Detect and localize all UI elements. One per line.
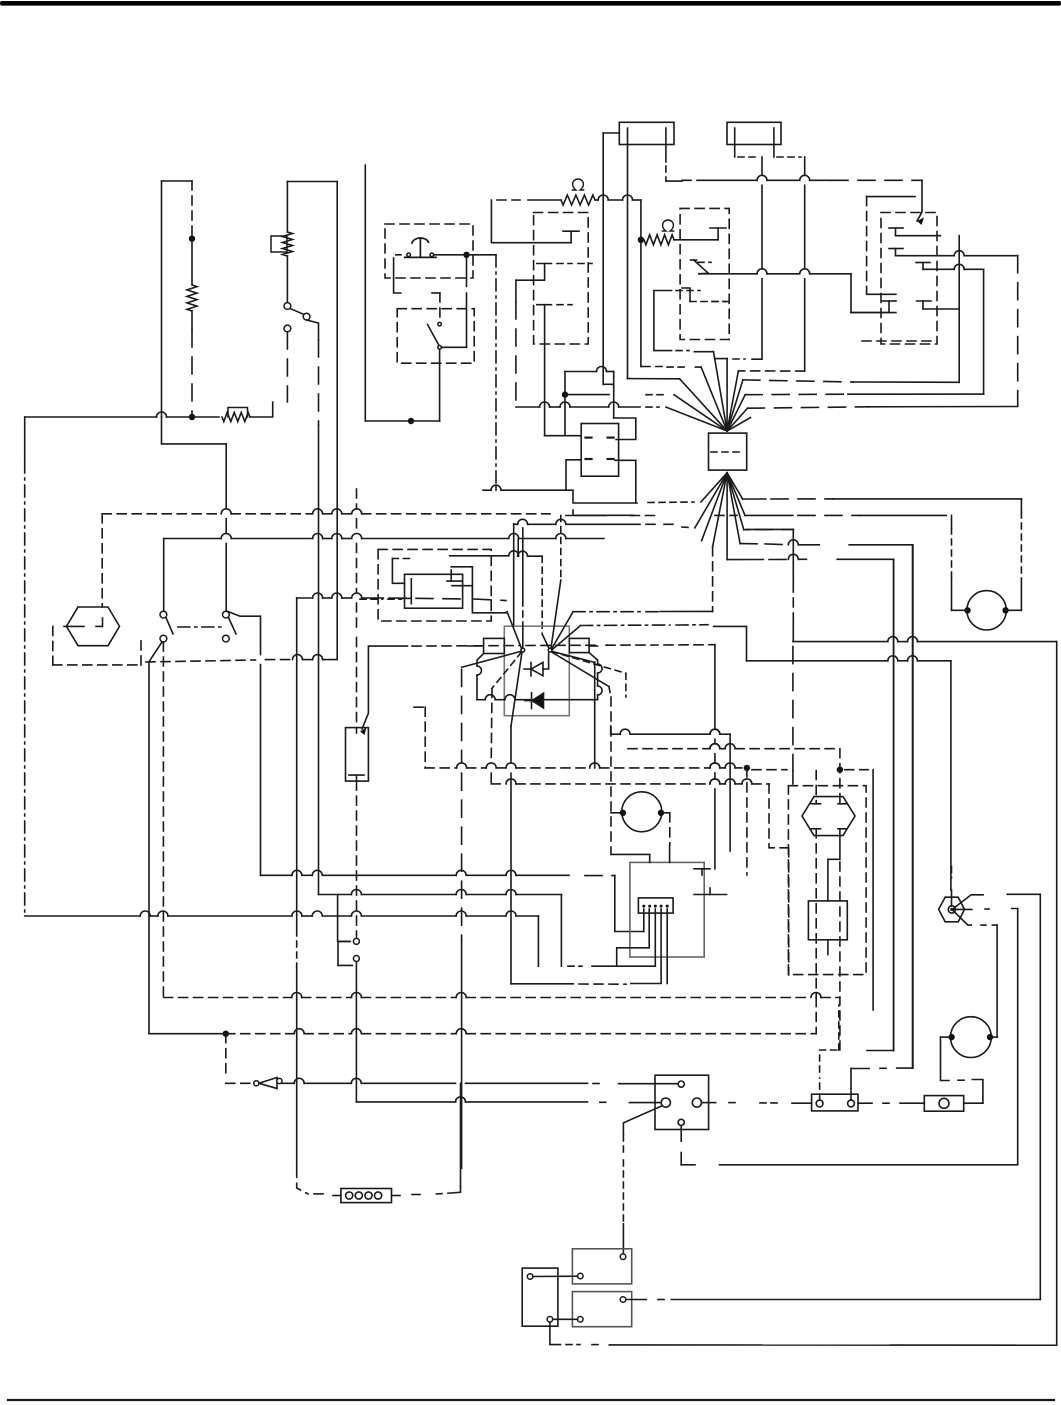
wire (178, 626, 225, 628)
wire (609, 1344, 1056, 1346)
ignition fan A (462, 528, 525, 726)
wire (566, 460, 581, 490)
flasher (622, 792, 662, 832)
contact (916, 263, 930, 270)
wire (952, 609, 968, 611)
wire (466, 1082, 600, 1084)
wire (615, 460, 636, 503)
bus (266, 655, 338, 660)
wire (838, 1005, 840, 1050)
wire (355, 962, 357, 1102)
resistor R4 (561, 195, 595, 205)
wire (845, 769, 868, 771)
wire (282, 1078, 456, 1083)
wire (627, 128, 629, 379)
wire (297, 1168, 329, 1194)
wire (603, 132, 619, 134)
ignition housing (504, 626, 569, 716)
switch S7 (254, 1078, 282, 1089)
border top rule (0, 1, 1061, 6)
wire (788, 848, 790, 975)
wire (611, 854, 649, 862)
label (572, 179, 583, 190)
bus (514, 519, 676, 524)
bolt (939, 897, 965, 922)
wire (191, 181, 193, 239)
wire (568, 965, 655, 967)
pin (661, 1098, 670, 1107)
wire (682, 526, 689, 529)
wire (641, 366, 701, 369)
wire (729, 734, 731, 851)
wire (872, 770, 874, 1010)
contact (691, 260, 711, 273)
relay K7 (522, 1268, 558, 1326)
bus (483, 485, 637, 503)
wire (849, 544, 912, 546)
wire (364, 165, 366, 421)
wire (191, 239, 193, 284)
wire (972, 1080, 983, 1104)
pin (678, 1119, 684, 1125)
wire (617, 909, 650, 966)
bus (25, 911, 539, 916)
wire (356, 638, 358, 733)
wire (537, 916, 539, 966)
contact (682, 288, 726, 302)
contact (586, 438, 616, 459)
fuse F1 (619, 122, 674, 144)
wire (953, 910, 971, 925)
contact (694, 869, 710, 875)
wire (912, 545, 914, 1068)
wire (746, 528, 793, 530)
wire (839, 749, 841, 804)
wire (466, 257, 468, 347)
module connector (638, 898, 673, 913)
wire (712, 547, 714, 612)
wire (839, 862, 841, 998)
node (463, 252, 469, 258)
wire (851, 274, 896, 313)
wire (468, 645, 484, 647)
wire (603, 133, 614, 384)
wire (746, 768, 748, 875)
wire (669, 813, 671, 845)
relay K4 (346, 728, 369, 782)
wire (565, 394, 668, 396)
wire (676, 350, 689, 352)
wire (851, 1067, 913, 1069)
node (837, 767, 843, 773)
switch S3 housing (397, 309, 474, 364)
wire (774, 128, 801, 157)
contact (710, 228, 726, 240)
wire (867, 196, 915, 198)
wire (511, 983, 626, 985)
wire (710, 645, 720, 869)
fuse F3 (812, 1094, 858, 1111)
wire (996, 925, 998, 1037)
wire (296, 967, 298, 1168)
switch S5 (223, 611, 237, 642)
node (744, 765, 750, 771)
connector X3 (655, 1075, 709, 1129)
wire (839, 998, 841, 1051)
node (948, 1034, 954, 1040)
wire (250, 402, 273, 417)
contact (811, 803, 820, 805)
wire (912, 545, 914, 1068)
wire (191, 311, 193, 417)
bus (164, 993, 839, 998)
wire (951, 867, 953, 906)
wire (533, 1275, 578, 1277)
bus (743, 380, 959, 382)
wire (643, 909, 645, 932)
wire (287, 182, 337, 233)
resistor R1 (187, 285, 197, 311)
wire (866, 197, 868, 294)
wire (815, 829, 817, 1034)
switch S2 (396, 238, 436, 257)
wire (541, 556, 543, 634)
wire fan top (666, 352, 751, 431)
wire (815, 771, 817, 804)
contact (694, 888, 727, 895)
bus (628, 744, 835, 749)
node (638, 237, 644, 243)
wire (690, 301, 729, 303)
wire (286, 332, 288, 402)
wire (594, 662, 596, 768)
contact (64, 618, 104, 626)
switch S1 (284, 303, 310, 332)
wire (828, 829, 840, 901)
wire (162, 642, 164, 998)
wire (619, 1083, 679, 1085)
node (987, 1034, 993, 1040)
wire (163, 539, 165, 612)
wire (515, 280, 517, 407)
contact (447, 570, 463, 581)
wire (461, 669, 463, 1168)
wire (513, 524, 515, 626)
wire (850, 1069, 852, 1101)
wire (917, 180, 924, 225)
contact (811, 828, 820, 830)
wire (226, 1082, 251, 1084)
wire (893, 559, 895, 1050)
wire (626, 1299, 1040, 1301)
bus (727, 554, 806, 559)
wire (581, 624, 708, 627)
wire (1006, 609, 1022, 611)
wire (460, 1083, 462, 1186)
wire (392, 558, 414, 560)
wire (720, 1164, 1018, 1166)
bus (365, 420, 439, 422)
contact (349, 775, 364, 781)
switch S6 (353, 938, 359, 961)
solenoid housing (788, 786, 866, 975)
wire (804, 157, 806, 371)
ignition outline (477, 653, 602, 700)
wire (318, 340, 320, 425)
pin (678, 1081, 684, 1087)
wire (669, 845, 671, 862)
wire (923, 308, 959, 310)
wire (560, 516, 562, 581)
wire (610, 726, 612, 734)
wire (958, 1079, 966, 1081)
wire fan bottom (695, 473, 745, 560)
bus (747, 656, 951, 661)
wire (162, 417, 227, 444)
wire (714, 626, 747, 660)
contact (889, 228, 903, 236)
wire (225, 444, 227, 611)
wire (792, 647, 794, 771)
contact (883, 301, 897, 313)
wire (862, 340, 935, 342)
wire (941, 1036, 952, 1038)
bus (744, 528, 794, 530)
wire (544, 305, 546, 436)
wire (611, 812, 670, 814)
wire (681, 1127, 695, 1165)
node (658, 810, 664, 816)
wire (614, 372, 636, 440)
wire (622, 1135, 624, 1253)
wire (1007, 894, 1040, 1299)
wire (792, 529, 794, 641)
wire (1020, 499, 1022, 610)
wire (792, 771, 794, 784)
wire (161, 181, 163, 417)
border bottom rule (8, 1399, 1054, 1401)
wire (1056, 642, 1058, 1346)
ignition fan B (543, 580, 626, 687)
wire (981, 924, 997, 926)
wire (296, 598, 298, 936)
wire (858, 1102, 912, 1104)
contact (563, 231, 579, 243)
wire (356, 781, 358, 937)
wire (550, 1322, 603, 1345)
wire (654, 909, 656, 966)
resistor R2 (222, 408, 250, 422)
gauge (967, 591, 1006, 630)
contact (838, 803, 846, 805)
bus (226, 1029, 815, 1034)
wire (867, 1050, 894, 1052)
contact (889, 249, 903, 256)
wire (360, 598, 401, 600)
diode D1 (524, 653, 549, 676)
node (189, 414, 195, 420)
bus (25, 412, 219, 417)
wire (510, 726, 512, 984)
wire (953, 895, 983, 909)
wire (439, 293, 441, 320)
wire (360, 646, 407, 735)
pin (578, 1317, 584, 1323)
wire (149, 642, 162, 1034)
wire (140, 639, 142, 665)
switch S4 (160, 611, 173, 642)
wire (666, 128, 682, 181)
wire (615, 876, 644, 932)
node (1002, 607, 1008, 613)
diode D2 (525, 693, 544, 709)
bus (682, 175, 922, 180)
fuse F2 (727, 122, 781, 144)
bus (740, 540, 819, 545)
wire (338, 895, 350, 942)
node (408, 418, 414, 424)
wire (495, 255, 497, 490)
wire (490, 688, 493, 784)
wire (517, 539, 519, 557)
bus (425, 763, 742, 768)
resistor R5 (644, 235, 674, 245)
wire (623, 1106, 661, 1135)
wire (950, 661, 952, 890)
node (223, 1031, 229, 1037)
wire (896, 251, 1018, 256)
switch S2 housing (385, 224, 473, 278)
wire (318, 425, 320, 895)
bus (450, 551, 519, 556)
wire (595, 195, 641, 200)
bus (745, 514, 946, 516)
wire (951, 515, 953, 610)
contact (401, 579, 411, 604)
resistor R3 (271, 232, 292, 256)
wire (964, 1102, 983, 1104)
wire (827, 940, 829, 955)
wire (609, 687, 611, 855)
fuse F4 (924, 1096, 963, 1112)
wire (412, 645, 715, 646)
wire (820, 1050, 840, 1100)
bus (743, 498, 1022, 500)
node (562, 391, 568, 397)
wire (851, 312, 889, 314)
wire (867, 293, 896, 295)
bus (745, 393, 983, 396)
wire (893, 559, 895, 1050)
wire (518, 551, 543, 556)
wire (837, 558, 893, 560)
wire (676, 290, 700, 292)
wire (735, 128, 758, 157)
bus (611, 729, 730, 734)
wire (738, 370, 804, 372)
pin (578, 1273, 584, 1279)
pin (620, 1254, 626, 1260)
wire (225, 1034, 227, 1078)
wire (24, 417, 26, 916)
pin (692, 1098, 701, 1107)
starter (951, 1017, 992, 1058)
wire (53, 664, 141, 666)
connector bracket (338, 941, 352, 965)
pin (547, 1317, 553, 1323)
wire (452, 586, 472, 609)
bus (149, 1033, 226, 1035)
wire (760, 1102, 812, 1104)
wire (769, 784, 789, 848)
wire (296, 941, 298, 967)
relay K1 housing (534, 213, 589, 345)
pin (527, 1274, 533, 1280)
wire (648, 501, 694, 504)
solenoid (808, 901, 847, 940)
bus (573, 510, 634, 515)
wire (958, 236, 960, 383)
relay K2 housing (680, 208, 729, 339)
wire (983, 269, 985, 394)
wire (896, 235, 941, 237)
connector X2 (341, 1189, 392, 1203)
wire (336, 182, 338, 660)
wire (666, 909, 668, 984)
wire (702, 1102, 740, 1104)
wire (674, 239, 718, 241)
wire (356, 1097, 610, 1102)
wire (752, 769, 787, 771)
wire (941, 1037, 950, 1080)
wire (589, 645, 598, 647)
relay K8 (405, 574, 463, 608)
wire (629, 1102, 661, 1104)
wire (1017, 256, 1019, 407)
wire (439, 349, 441, 421)
wire (560, 895, 562, 967)
wire (516, 264, 545, 281)
keyswitch (67, 607, 120, 646)
wire (990, 1036, 997, 1038)
wire (472, 589, 507, 613)
relay K3 (581, 424, 618, 477)
wire (640, 200, 642, 367)
bus (146, 660, 256, 662)
wire (497, 199, 520, 201)
wire (733, 358, 762, 360)
contact (917, 301, 931, 309)
node (964, 607, 970, 613)
wire (699, 272, 708, 275)
bus (164, 534, 604, 539)
wire (565, 367, 614, 372)
relay K8 housing (378, 549, 491, 621)
wire (434, 254, 496, 256)
bus (793, 637, 1057, 642)
bus (261, 870, 615, 875)
wire (631, 909, 661, 984)
wire (394, 258, 440, 293)
wire (228, 612, 261, 655)
label (662, 220, 673, 231)
horn (802, 797, 855, 836)
wire (625, 673, 627, 697)
wire (286, 256, 288, 302)
wire (923, 264, 984, 269)
wire (101, 514, 103, 607)
wire (528, 199, 561, 201)
